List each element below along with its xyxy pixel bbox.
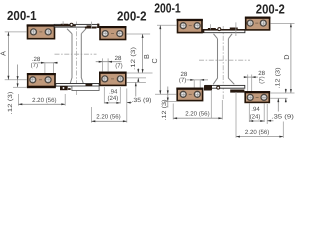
tab bump on plate right (left figure)	[87, 25, 92, 27]
rivet ring on top plate (left figure)	[70, 23, 73, 26]
fuse neck left wall (right figure)	[213, 39, 217, 85]
pad bottom thick edge (left figure bottom-left)	[27, 86, 56, 88]
svg-text:(7): (7)	[31, 62, 38, 69]
dimension .35 (9) (left figure)	[127, 82, 152, 104]
dimension 2.20 (56) left figure second	[91, 89, 126, 123]
tab bump on plate right (right figure)	[230, 28, 238, 30]
fuse neck right shoulder (left figure)	[81, 29, 86, 34]
clip pad 200-1 bottom-left	[27, 73, 56, 87]
svg-text:.12 (3): .12 (3)	[130, 47, 137, 70]
foot tick (left figure)	[68, 88, 71, 90]
extension tick above plate left (right figure)	[210, 24, 212, 29]
rivet ring on base bar (right figure)	[217, 86, 220, 89]
dimension .12 (3) lower-left (right figure)	[161, 87, 176, 121]
fuse body vertical centerline (right figure)	[222, 26, 224, 99]
rivet ring on top plate (right figure)	[218, 28, 221, 31]
dimension .94 (24) (right figure)	[249, 103, 264, 122]
svg-text:28: 28	[258, 70, 265, 77]
dark strip on base bar right (left figure)	[86, 84, 93, 86]
clip pad 200-1 top-left	[27, 24, 56, 38]
base lower box (left figure)	[72, 86, 99, 90]
fuse body vertical centerline (left figure)	[75, 22, 77, 96]
svg-text:(24): (24)	[107, 95, 118, 102]
solder foot left (left figure)	[60, 86, 68, 90]
svg-text:B: B	[142, 54, 151, 59]
extension tick above plate right (left figure)	[90, 22, 92, 29]
dimension .12 (3) right side (left figure)	[127, 47, 146, 83]
rivet ring on solder foot (left figure)	[62, 87, 65, 90]
fuse body horizontal centerline (left figure)	[55, 53, 97, 55]
svg-text:2.20 (56): 2.20 (56)	[245, 129, 269, 136]
svg-text:200-2: 200-2	[256, 2, 285, 17]
svg-text:(24): (24)	[250, 114, 261, 121]
svg-text:2.20 (56): 2.20 (56)	[96, 113, 120, 120]
svg-text:(7): (7)	[179, 77, 186, 84]
svg-text:A: A	[0, 51, 7, 56]
fuse top plate (right figure)	[203, 30, 245, 33]
clip pad 200-2 bottom-right (right figure)	[244, 91, 270, 102]
fuse top plate (left figure)	[54, 24, 99, 27]
dimension .12 (3) lower-left	[7, 65, 27, 115]
dimension .28 (7) above bottom-right pad (right figure)	[244, 70, 266, 91]
svg-text:.94: .94	[251, 106, 260, 113]
fuse neck left wall (left figure)	[70, 34, 72, 84]
svg-text:.12 (3): .12 (3)	[161, 100, 168, 121]
extension tick above plate left (left figure)	[62, 21, 64, 25]
base bar (left figure)	[56, 84, 99, 87]
dimension B	[127, 34, 153, 73]
svg-text:200-2: 200-2	[117, 9, 147, 24]
fuse neck right wall (left figure)	[81, 34, 83, 84]
top plate dark strip right (left figure)	[85, 27, 97, 29]
svg-text:2.20 (56): 2.20 (56)	[185, 110, 209, 117]
dimension .28 (7) (left figure)	[31, 56, 58, 73]
svg-text:.35 (9): .35 (9)	[132, 97, 152, 104]
svg-text:(7): (7)	[115, 63, 122, 70]
fuse neck right wall (right figure)	[228, 39, 234, 85]
clip pad 200-2 bottom-right	[99, 72, 127, 86]
svg-text:28: 28	[115, 55, 122, 62]
dimension .28 (7) above bottom-right pad (left figure)	[96, 55, 123, 72]
fuse neck left shoulder (right figure)	[214, 34, 218, 39]
clip pad 200-1 bottom-left (right figure)	[176, 88, 203, 101]
svg-text:2.20 (56): 2.20 (56)	[32, 97, 56, 104]
svg-text:.12 (3): .12 (3)	[7, 92, 14, 115]
svg-text:.12 (3): .12 (3)	[275, 68, 282, 89]
dimension .28 (7) (right figure)	[179, 71, 208, 88]
dimension 2.20 (56) right figure second	[236, 92, 283, 138]
dimension 2.20 (56) left figure first	[18, 94, 65, 106]
mounting tab on top plate (right figure)	[208, 28, 216, 30]
dimension C	[150, 25, 177, 94]
dimension .35 (9) (right figure)	[267, 98, 294, 124]
clip pad 200-1 top-left (right figure)	[177, 19, 203, 33]
svg-text:(7): (7)	[258, 76, 265, 83]
dimension 2.20 (56) right figure first	[173, 90, 222, 120]
dimension A	[0, 32, 27, 80]
extension tick above plate right (right figure)	[235, 22, 237, 36]
fuse body horizontal centerline (right figure)	[199, 59, 250, 61]
fuse neck left shoulder (left figure)	[67, 29, 72, 34]
svg-text:C: C	[150, 58, 159, 63]
base bar (right figure)	[205, 85, 245, 88]
clip pad 200-2 top-right	[99, 26, 126, 40]
top plate right end cap (left figure)	[97, 24, 99, 28]
dimension .12 (3) right side (right figure)	[270, 68, 287, 103]
dark strip below base bar right (right figure)	[230, 90, 244, 93]
mounting tab on top plate (left figure)	[61, 24, 68, 26]
svg-text:200-1: 200-1	[7, 8, 37, 23]
solder foot left (right figure)	[204, 85, 212, 90]
dimension .94 (24) (left figure)	[104, 87, 120, 104]
svg-text:.35 (9): .35 (9)	[271, 114, 294, 121]
top plate dark top edge (right figure)	[203, 29, 245, 31]
top plate dark top edge left portion (left figure)	[54, 25, 76, 26]
svg-text:200-1: 200-1	[154, 1, 181, 16]
clip pad 200-2 top-right (right figure)	[245, 17, 271, 30]
fuse neck right shoulder (right figure)	[228, 34, 232, 39]
top plate left end join (right figure)	[202, 29, 204, 33]
dimension D	[270, 23, 294, 93]
svg-text:D: D	[282, 54, 291, 59]
